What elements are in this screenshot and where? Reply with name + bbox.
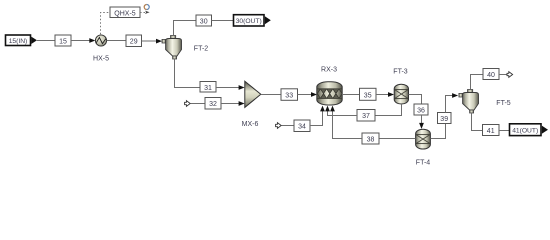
- svg-text:RX-3: RX-3: [321, 67, 337, 74]
- wire FT-3 bottom to 37 to RX-3: [375, 104, 402, 116]
- open outlet marker stream 40: [507, 72, 513, 78]
- flash drum FT-4: [416, 129, 431, 149]
- wire MX-6 to 33: [261, 94, 281, 96]
- svg-text:30(OUT): 30(OUT): [236, 18, 262, 25]
- svg-text:37: 37: [362, 113, 370, 120]
- wire 31 to MX-6: [216, 87, 239, 89]
- arrowhead 38 into RX-3: [330, 106, 335, 112]
- wire 36 down to FT-4: [421, 115, 423, 124]
- svg-text:39: 39: [440, 116, 448, 123]
- wire 40 to outlet marker: [499, 74, 507, 76]
- svg-text:MX-6: MX-6: [242, 121, 259, 128]
- heat stream label box QHX-5: [110, 7, 140, 18]
- stream box 39: [438, 113, 452, 124]
- stream box 34: [294, 120, 310, 132]
- heat exchanger HX-5: [95, 35, 106, 46]
- wire FT-4 left to 38: [379, 138, 416, 140]
- arrowhead 35 into FT-3: [388, 92, 394, 97]
- svg-text:HX-5: HX-5: [93, 56, 109, 63]
- svg-text:31: 31: [204, 85, 212, 92]
- stream box 35: [360, 88, 377, 100]
- stream box 32: [205, 98, 221, 110]
- stream box 40: [483, 69, 499, 80]
- svg-text:15: 15: [59, 38, 67, 45]
- stream 30(OUT) sink box: [234, 15, 271, 26]
- dashed stub QHX-5 to heat port icon: [140, 12, 145, 14]
- arrowhead 37 into RX-3: [325, 106, 330, 112]
- stream box 33: [281, 89, 298, 101]
- feed marker stream 34: [276, 123, 282, 129]
- wire 33 to RX-3: [298, 94, 312, 96]
- wire RX-3 to 35: [342, 94, 360, 96]
- arrowhead 33 into RX-3: [311, 92, 317, 97]
- stream box 38: [362, 133, 379, 144]
- heat port icon: [144, 5, 149, 15]
- svg-text:38: 38: [367, 136, 375, 143]
- wire 41 to 41(OUT): [499, 130, 509, 132]
- wire 15(IN) to 15: [37, 40, 55, 42]
- svg-text:FT-3: FT-3: [393, 69, 407, 76]
- wire 32 to MX-6: [221, 103, 239, 105]
- wire 37 to RX-3 bottom: [328, 111, 358, 116]
- wire 29 to FT-2: [142, 40, 157, 42]
- wire 30 to 30(OUT): [212, 20, 234, 22]
- arrowhead 32 into MX-6: [239, 101, 245, 106]
- flash drum FT-2: [162, 36, 182, 60]
- wire FT-4 right to 39: [430, 124, 445, 139]
- stream box 31: [200, 82, 216, 93]
- wire FT-2 top to 30: [174, 21, 197, 36]
- wire FT-5 top to 40: [471, 75, 484, 90]
- dashed heat stream HX-5 to QHX-5: [101, 13, 111, 35]
- reactor RX-3: [317, 82, 342, 105]
- flash drum FT-5: [459, 90, 479, 114]
- stream box 37: [357, 110, 375, 122]
- stream 15(IN) source box: [6, 35, 38, 46]
- svg-text:30: 30: [200, 18, 208, 25]
- arrowhead 31 into MX-6: [239, 85, 245, 90]
- svg-text:41: 41: [487, 128, 495, 135]
- wire 39 up to FT-5: [446, 96, 453, 113]
- svg-text:36: 36: [417, 107, 425, 114]
- wire 35 to FT-3: [376, 94, 389, 96]
- wire 15 to HX-5: [71, 40, 90, 42]
- stream box 29: [126, 35, 142, 47]
- arrowhead 39 into FT-5: [452, 93, 458, 98]
- svg-text:29: 29: [130, 39, 138, 46]
- wire FT-2 bottom to 31: [175, 59, 201, 88]
- svg-text:40: 40: [487, 72, 495, 79]
- svg-text:34: 34: [298, 124, 306, 131]
- stream box 36: [414, 104, 428, 115]
- svg-text:FT-2: FT-2: [194, 46, 208, 53]
- arrowhead into FT-2: [156, 39, 162, 44]
- wire FT-3 to 36: [409, 95, 422, 105]
- svg-text:41(OUT): 41(OUT): [512, 127, 538, 134]
- stream box 15: [55, 35, 71, 46]
- wire HX-5 to 29: [107, 40, 126, 42]
- svg-text:15(IN): 15(IN): [9, 38, 28, 45]
- stream box 41: [483, 125, 500, 136]
- arrowhead 34 into RX-3: [320, 106, 325, 112]
- wire 34 feed to box 34: [282, 125, 295, 127]
- stream 41(OUT) sink box: [510, 124, 549, 136]
- flash drum FT-3: [394, 84, 408, 104]
- svg-text:33: 33: [285, 93, 293, 100]
- svg-text:QHX-5: QHX-5: [114, 10, 136, 17]
- wire 38 to RX-3 bottom: [333, 111, 363, 139]
- svg-text:FT-4: FT-4: [416, 160, 430, 167]
- feed marker stream 32: [185, 101, 191, 107]
- arrowhead 36 into FT-4: [419, 123, 424, 129]
- svg-text:35: 35: [364, 92, 372, 99]
- arrowhead into HX-5: [89, 38, 95, 43]
- svg-text:32: 32: [209, 101, 217, 108]
- wire FT-5 bottom to 41: [472, 113, 483, 131]
- stream box 30: [196, 15, 212, 26]
- wire 34 to RX-3 bottom: [310, 111, 323, 126]
- mixer MX-6: [245, 81, 261, 107]
- wire 32 feed to box 32: [191, 103, 206, 105]
- svg-text:FT-5: FT-5: [496, 100, 510, 107]
